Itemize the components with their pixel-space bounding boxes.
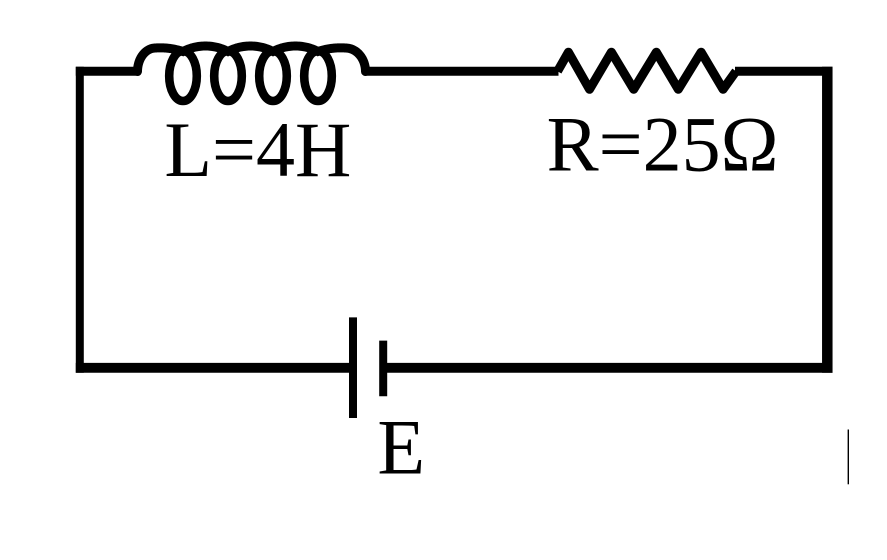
wire: top-right horizontal segment [735,67,833,76]
stray cursor mark bottom right [847,430,849,485]
battery E: long plate (left) [349,317,357,418]
resistor R zigzag [558,52,737,89]
wire: left vertical segment [76,67,84,373]
wire: bottom-right horizontal segment [383,363,832,373]
wire: top-left horizontal segment [76,67,139,76]
svg-text:E: E [377,404,425,491]
svg-text:R=25Ω: R=25Ω [547,101,779,188]
wire: right vertical segment [822,67,833,373]
wire: top middle segment between inductor and resistor [365,67,559,76]
wire: bottom-left horizontal segment [76,363,353,373]
battery E: short plate (right) [379,341,387,397]
svg-text:L=4H: L=4H [164,106,351,193]
inductor L: coil entry, humps and exit curve [138,46,366,72]
inductor L: coil loops [169,51,197,101]
